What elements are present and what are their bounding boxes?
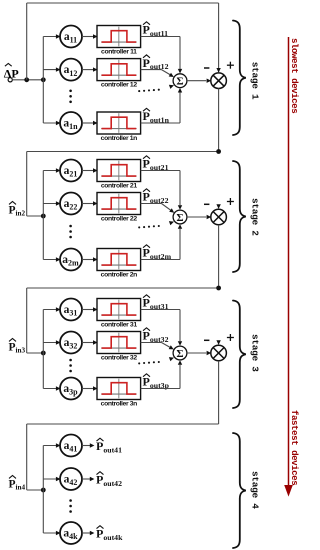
wire: a2m to controller (82, 259, 96, 261)
brace stage 1 (233, 21, 246, 136)
arrow into a2m (56, 257, 61, 261)
dotted wire: omitted outputs into summer (138, 225, 160, 229)
wire: a3p to controller (82, 388, 96, 390)
brace stage 3 (233, 301, 246, 409)
minus sign (204, 67, 209, 69)
wire: summer to multiplier (187, 352, 206, 354)
controller 11 box (97, 26, 141, 56)
wire: a22 to controller (82, 203, 96, 205)
wire: stage 4 feed horizontal from multiplier column (27, 423, 219, 425)
wire: branch to a42 (43, 478, 59, 480)
wire: branch to a21 (43, 170, 59, 172)
summer S1 (173, 74, 187, 88)
wire: a1n to controller (82, 122, 96, 124)
svg-text:controller 12: controller 12 (101, 82, 137, 89)
controller 32 box (97, 332, 141, 362)
label P_out2m (143, 245, 172, 261)
label P_out32 (143, 328, 169, 344)
arrow into summer upper-left (169, 345, 174, 349)
label P_out41 (96, 438, 122, 454)
arrow into controller 32 (93, 340, 98, 344)
svg-text:slowest devices: slowest devices (289, 38, 300, 113)
arrow into a31 (56, 307, 61, 311)
wire: P_out11 to summer (141, 36, 180, 38)
arrow into a22 (56, 201, 61, 205)
arrow into a12 (56, 67, 61, 71)
svg-text:ΔP: ΔP (4, 67, 19, 81)
label P_in2 (9, 202, 26, 218)
arrow into controller 21 (93, 168, 98, 172)
arrow into a41 (56, 443, 61, 447)
wire: branch to a4k (43, 532, 59, 534)
svg-text:controller 11: controller 11 (101, 48, 137, 55)
wire: stage 3 feed into bus (27, 352, 44, 354)
controller 21 box (97, 160, 141, 190)
wire: a32 to controller (82, 342, 96, 344)
wire: a41 output (82, 445, 93, 447)
wire: branch to a22 (43, 203, 59, 205)
svg-text:controller 3n: controller 3n (101, 400, 137, 407)
svg-text:controller 32: controller 32 (101, 354, 137, 361)
arrow into summer top (178, 205, 182, 210)
junction: multiplier chain tap stage 2 (216, 149, 221, 154)
ellipsis stage 2 rows (69, 225, 72, 239)
arrow into summer top (178, 69, 182, 74)
arrow into controller 3p (93, 386, 98, 390)
ellipsis stage 4 rows (69, 499, 72, 513)
label P_in3 (9, 339, 26, 355)
coefficient gain a32 (60, 332, 82, 354)
controller 1n box (97, 112, 141, 142)
ellipsis stage 1 rows (69, 90, 72, 104)
wire: a31 to controller (82, 309, 96, 311)
wire: P_out31 to summer (141, 309, 180, 311)
summer S3 (173, 346, 187, 360)
plus sign (227, 62, 234, 69)
arrow into a21 (56, 168, 61, 172)
wire: multiplier output down (218, 225, 220, 288)
coefficient gain a1n (60, 112, 82, 134)
label P_out22 (143, 189, 169, 205)
input terminal dP (8, 78, 12, 82)
wire: feedback up left wall (26, 3, 28, 80)
plus sign (227, 198, 234, 205)
junction: feedback takeoff (24, 77, 29, 82)
label P_out4k (96, 526, 123, 542)
arrow output a41 (90, 443, 95, 447)
wire: stage 2 feed down left wall (26, 152, 28, 217)
svg-text:stage 4: stage 4 (250, 471, 261, 509)
arrow into controller 2m (93, 257, 98, 261)
arrow into controller 22 (93, 201, 98, 205)
wire: summer to multiplier (187, 216, 206, 218)
multiplier X1 (211, 73, 227, 89)
label P_in4 (9, 476, 26, 492)
junction: stage 3 feed joins bus (41, 351, 46, 356)
arrow into multiplier left (207, 215, 212, 219)
coefficient gain a3p (60, 378, 82, 400)
dotted wire: omitted outputs into summer (138, 361, 160, 365)
wire: P_out21 to summer (141, 170, 180, 172)
coefficient gain a42 (60, 468, 82, 490)
controller 3n box (97, 378, 141, 408)
label dP-hat (4, 63, 19, 80)
plus sign (227, 334, 234, 341)
wire: stage 3 feed horizontal from multiplier column (27, 287, 219, 289)
coefficient gain a2m (60, 249, 82, 271)
junction: stage 2 feed joins bus (41, 214, 46, 219)
arrow into multiplier top (216, 68, 220, 73)
label P_out11 (143, 22, 169, 38)
wire: a42 output (82, 478, 93, 480)
wire: feedback along top (27, 2, 219, 4)
svg-text:Σ: Σ (176, 348, 183, 360)
wire: stage 4 feed down left wall (26, 424, 28, 490)
label P_out3p (143, 374, 170, 390)
arrow into summer bottom (178, 360, 182, 365)
wire: feedback down into multiplier 1 (218, 3, 220, 72)
wire: P_out22 to summer (141, 203, 162, 205)
junction: stage 4 feed joins bus (41, 488, 46, 493)
arrow into a3p (56, 386, 61, 390)
svg-text:stage 1: stage 1 (250, 62, 261, 100)
wire: a12 to controller (82, 69, 96, 71)
coefficient gain a11 (60, 26, 82, 48)
controller 12 box (97, 59, 141, 89)
wire: P_out12 to summer (141, 69, 162, 71)
brace stage 2 (233, 161, 246, 272)
arrow into controller 12 (93, 67, 98, 71)
junction: multiplier chain tap stage 3 (216, 286, 221, 291)
wire: branch to a32 (43, 342, 59, 344)
arrow into summer bottom (178, 224, 182, 229)
summer S2 (173, 210, 187, 224)
svg-text:Σ: Σ (176, 212, 183, 224)
wire: P_out1n to summer (141, 122, 180, 124)
arrow output a4k (90, 531, 95, 535)
arrow into summer upper-left (169, 73, 174, 77)
wire: stage 4 distribution bus (42, 446, 44, 534)
label P_out1n (143, 108, 170, 124)
arrow into a11 (56, 34, 61, 38)
wire: stage 2 feed into bus (27, 215, 44, 217)
coefficient gain a21 (60, 160, 82, 182)
coefficient gain a12 (60, 59, 82, 81)
wire: branch to a3p (43, 388, 59, 390)
wire: branch to a1n (43, 122, 59, 124)
wire: P_out32 to summer (141, 342, 162, 344)
arrow into controller 1n (93, 121, 98, 125)
svg-text:Σ: Σ (176, 76, 183, 88)
controller 2n box (97, 249, 141, 279)
junction: input joins stage1 bus (41, 77, 46, 82)
svg-text:controller 2n: controller 2n (101, 271, 137, 278)
controller 31 box (97, 299, 141, 329)
label P_out31 (143, 295, 169, 311)
arrow into multiplier top (216, 204, 220, 209)
arrow into controller 31 (93, 307, 98, 311)
red speed arrow shaft (288, 37, 290, 486)
wire: multiplier output down (218, 89, 220, 152)
wire: a21 to controller (82, 170, 96, 172)
wire: stage 1 distribution bus (42, 37, 44, 124)
red speed arrow head (284, 485, 293, 497)
coefficient gain a41 (60, 435, 82, 457)
wire: stage 2 distribution bus (42, 171, 44, 260)
multiplier X3 (211, 345, 227, 361)
arrow into summer bottom (178, 88, 182, 93)
label P_out42 (96, 472, 122, 488)
arrow into a4k (56, 531, 61, 535)
arrow into multiplier left (207, 79, 212, 83)
svg-text:controller 21: controller 21 (101, 182, 137, 189)
wire: stage 2 feed horizontal from multiplier column (27, 151, 219, 153)
wire: P_out3p to summer (141, 388, 180, 390)
svg-text:fastest devices: fastest devices (289, 410, 300, 485)
wire: input to bus (12, 79, 43, 81)
wire: branch to a11 (43, 36, 59, 38)
svg-text:controller 22: controller 22 (101, 215, 137, 222)
wire: stage 3 feed down left wall (26, 288, 28, 353)
wire: branch to a41 (43, 445, 59, 447)
svg-text:controller 31: controller 31 (101, 321, 137, 328)
svg-text:stage 2: stage 2 (250, 198, 261, 236)
label P_out12 (143, 55, 169, 71)
arrow into summer upper-left (169, 208, 174, 213)
wire: summer to multiplier (187, 80, 206, 82)
coefficient gain a31 (60, 299, 82, 321)
label P_out21 (143, 156, 169, 172)
wire: stage 4 feed into bus (27, 489, 44, 491)
arrow into multiplier top (216, 340, 220, 345)
svg-text:stage 3: stage 3 (250, 334, 261, 372)
svg-text:controller 1n: controller 1n (101, 135, 137, 142)
arrow into summer top (178, 341, 182, 346)
arrow into controller 11 (93, 34, 98, 38)
wire: a11 to controller (82, 36, 96, 38)
wire: multiplier output down (218, 361, 220, 424)
wire: branch to a12 (43, 69, 59, 71)
brace stage 4 (233, 433, 246, 548)
arrow output a42 (90, 477, 95, 481)
wire: a4k output (82, 532, 93, 534)
arrow into a42 (56, 477, 61, 481)
minus sign (204, 339, 209, 341)
coefficient gain a4k (60, 522, 82, 544)
coefficient gain a22 (60, 193, 82, 215)
wire: stage 3 distribution bus (42, 310, 44, 389)
minus sign (204, 203, 209, 205)
multiplier X2 (211, 209, 227, 225)
arrow into a32 (56, 340, 61, 344)
arrow into multiplier left (207, 351, 212, 355)
wire: branch to a31 (43, 309, 59, 311)
ellipsis stage 3 rows (69, 359, 72, 373)
controller 22 box (97, 193, 141, 223)
wire: branch to a2m (43, 259, 59, 261)
wire: P_out2m to summer (141, 259, 180, 261)
arrow into a1n (56, 121, 61, 125)
dotted wire: omitted outputs into summer (138, 89, 160, 93)
